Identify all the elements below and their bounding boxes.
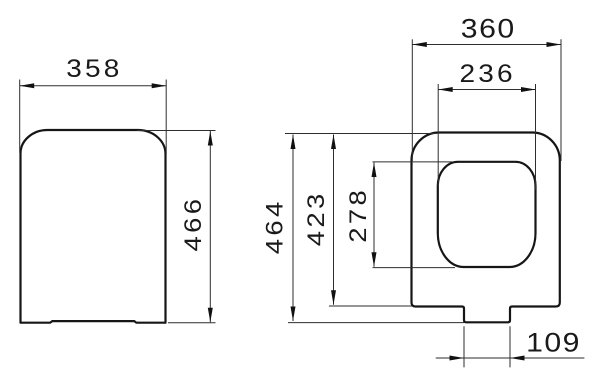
svg-text:360: 360 [461, 14, 516, 44]
svg-text:464: 464 [260, 198, 288, 254]
svg-text:278: 278 [344, 187, 372, 243]
svg-text:236: 236 [459, 59, 515, 87]
svg-text:109: 109 [526, 328, 581, 358]
svg-text:358: 358 [66, 54, 122, 82]
svg-text:466: 466 [178, 196, 206, 252]
svg-text:423: 423 [301, 190, 329, 246]
